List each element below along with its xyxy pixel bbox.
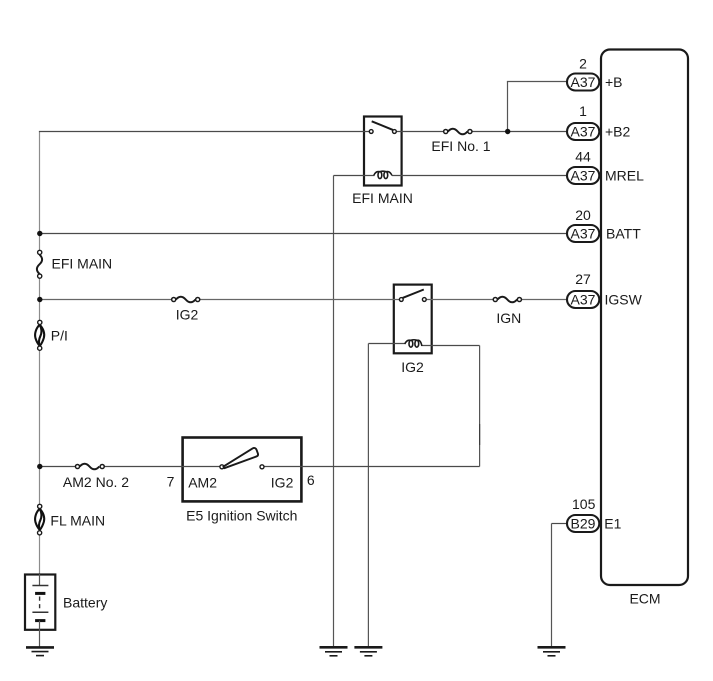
ground: EFI MAIN relay coil ground	[320, 647, 348, 656]
connector pin A37-2 +B	[567, 56, 623, 91]
svg-text:B29: B29	[571, 516, 596, 532]
svg-text:P/I: P/I	[51, 327, 68, 343]
svg-text:IG2: IG2	[271, 475, 294, 491]
svg-text:7: 7	[167, 474, 175, 490]
node: junction dot at EFI No.1 output	[505, 129, 510, 134]
wire: AM2 No.2 fuse to ignition switch	[104, 466, 219, 468]
wire: trunk segment between P/I link and FL MAIN link	[39, 349, 41, 505]
svg-text:27: 27	[575, 271, 591, 287]
ECM box	[601, 50, 688, 586]
svg-text:E5 Ignition Switch: E5 Ignition Switch	[186, 507, 297, 523]
svg-text:AM2: AM2	[188, 475, 217, 491]
wire: left trunk segment from EFI MAIN switch line down to EFI MAIN fusible link	[39, 132, 41, 252]
svg-text:6: 6	[307, 472, 315, 488]
wire: EFI MAIN relay coil left lead	[334, 175, 375, 177]
fusible link P/I	[35, 320, 68, 350]
battery plate long 1	[32, 585, 48, 587]
svg-text:Battery: Battery	[63, 594, 107, 610]
svg-text:IG2: IG2	[401, 359, 424, 375]
relay EFI MAIN switch blade	[372, 121, 393, 130]
svg-text:IG2: IG2	[176, 306, 199, 322]
relay IG2 switch blade	[403, 290, 424, 298]
wire: AM2 line trunk to AM2 No.2 fuse	[39, 466, 75, 468]
fuse EFI No.1	[431, 129, 490, 154]
wire: IG2 relay coil left lead	[368, 343, 405, 345]
relay IG2 box	[394, 285, 432, 354]
svg-text:EFI MAIN: EFI MAIN	[52, 256, 113, 272]
svg-text:BATT: BATT	[606, 226, 641, 242]
svg-text:+B: +B	[605, 74, 623, 90]
battery internal top lead	[39, 574, 41, 585]
svg-text:1: 1	[579, 103, 587, 119]
wire: darker overlapped segment on drop	[479, 424, 481, 445]
connector pin B29-105 E1	[567, 496, 622, 532]
connector pin A37-20 BATT	[567, 207, 641, 242]
switch E5 ignition switch box	[183, 438, 302, 502]
wire: IGSW line trunk to IG2 fuse	[39, 299, 171, 301]
battery plate short 1	[35, 592, 45, 595]
battery box	[25, 575, 55, 630]
switch E5 contacts	[220, 465, 224, 469]
svg-text:IGSW: IGSW	[605, 292, 643, 308]
battery plate long 2	[32, 611, 48, 613]
relay IG2 coil	[405, 340, 422, 347]
svg-text:E1: E1	[604, 516, 621, 532]
wire: EFI MAIN relay coil ground drop	[333, 176, 335, 648]
svg-text:A37: A37	[571, 168, 596, 184]
wire: IG2 relay to IGN fuse	[426, 299, 493, 301]
svg-text:AM2 No. 2: AM2 No. 2	[63, 474, 129, 490]
wire: riser from +B2 node up	[507, 82, 509, 132]
svg-text:44: 44	[575, 148, 591, 164]
ground: battery ground	[26, 647, 54, 655]
connector pin A37-44 MREL	[567, 148, 644, 184]
fuse IGN	[493, 297, 521, 326]
wire: IGN fuse to IGSW pin	[522, 299, 567, 301]
node: junction dot trunk/IG2 fuse line	[37, 297, 42, 302]
wire: IG2 fuse to IG2 relay	[200, 299, 399, 301]
svg-text:+B2: +B2	[605, 124, 631, 140]
wire: IG2 relay coil right lead	[422, 345, 480, 347]
svg-text:A37: A37	[571, 226, 596, 242]
wire: E1 ground drop	[551, 524, 553, 648]
node: junction dot trunk/BATT	[37, 231, 42, 236]
wire: E1 pin lead	[552, 523, 568, 525]
wire: drop from IG2 coil right lead to ignition switch line	[479, 346, 481, 467]
svg-text:A37: A37	[571, 124, 596, 140]
wire: BATT line from trunk to BATT pin	[39, 233, 567, 235]
wire: EFI MAIN relay switch line right (relay to EFI No.1 fuse)	[397, 131, 444, 133]
wire: EFI MAIN relay switch line left (trunk to relay)	[39, 131, 369, 133]
relay EFI MAIN box	[364, 117, 402, 186]
relay EFI MAIN switch contacts	[369, 130, 373, 134]
svg-text:A37: A37	[571, 292, 596, 308]
svg-text:2: 2	[579, 56, 587, 72]
battery bottom lead to ground	[39, 621, 41, 647]
ground: E1 ground	[538, 647, 566, 656]
svg-text:20: 20	[575, 207, 591, 223]
switch E5 wedge lever	[223, 448, 258, 468]
fuse IG2	[172, 297, 200, 323]
ground: IG2 relay coil ground	[354, 647, 382, 656]
svg-text:EFI No. 1: EFI No. 1	[431, 138, 490, 154]
svg-text:ECM: ECM	[629, 591, 660, 607]
svg-text:MREL: MREL	[605, 168, 644, 184]
relay IG2 switch contacts	[399, 298, 403, 302]
svg-text:A37: A37	[571, 74, 596, 90]
relay EFI MAIN coil	[374, 171, 392, 178]
wire: IG2 relay coil ground drop	[367, 344, 369, 648]
wire: ignition switch internal right and out to coil drop	[264, 466, 479, 468]
wire: trunk segment between EFI MAIN link and P/I link	[39, 277, 41, 321]
svg-text:EFI MAIN: EFI MAIN	[352, 190, 413, 206]
wire: to +B pin	[507, 81, 567, 83]
svg-text:105: 105	[572, 496, 596, 512]
wire: EFI No.1 fuse to +B2 pin	[472, 131, 567, 133]
battery plate short 2	[35, 619, 45, 622]
node: junction dot trunk/AM2 line	[37, 464, 42, 469]
battery dashed middle	[39, 597, 41, 610]
fusible link FL MAIN	[35, 504, 105, 535]
fuse EFI MAIN (fusible link, vertical)	[37, 250, 112, 278]
svg-text:IGN: IGN	[496, 310, 521, 326]
wire: EFI MAIN relay coil to MREL pin	[392, 175, 567, 177]
connector pin A37-1 +B2	[567, 103, 631, 140]
svg-text:FL MAIN: FL MAIN	[50, 512, 105, 528]
connector pin A37-27 IGSW	[567, 271, 643, 308]
wire: trunk segment between FL MAIN link and battery	[39, 535, 41, 574]
fuse AM2 No.2	[63, 464, 129, 490]
